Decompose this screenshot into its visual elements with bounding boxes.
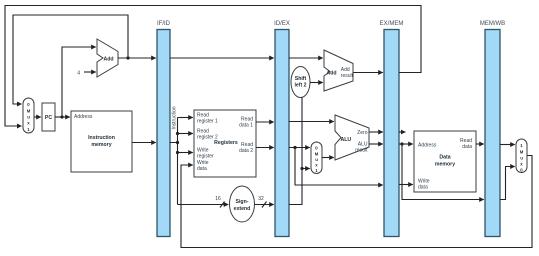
svg-text:data 1: data 1 [239, 123, 253, 129]
svg-text:Add: Add [104, 57, 114, 63]
junction PC output [60, 115, 63, 118]
wire: branch target loop EX/MEM to PC mux input 1 [5, 6, 421, 127]
svg-text:M: M [315, 152, 319, 157]
svg-text:result: result [355, 148, 368, 154]
wire: read data 2 ID/EX to mux M2 input 0 [289, 147, 310, 149]
svg-text:MEM/WB: MEM/WB [480, 21, 505, 27]
svg-text:register: register [197, 154, 214, 160]
svg-text:Registers: Registers [214, 140, 238, 146]
svg-text:IF/ID: IF/ID [157, 21, 171, 27]
svg-text:Shift: Shift [295, 76, 307, 82]
register PC [42, 103, 55, 131]
wire: instruction memory to IF/ID [132, 142, 156, 144]
wire: mux M2 to ALU [322, 157, 334, 159]
wire: instruction bus from IF/ID [170, 118, 178, 205]
junction instruction bus write register [176, 151, 179, 154]
mux M2 (ALU operand B) [311, 142, 322, 174]
svg-text:PC: PC [45, 115, 52, 121]
wire: PC to Add [62, 47, 96, 117]
wire: PC+4 loop to PC mux input 0 [13, 15, 128, 104]
svg-text:data: data [418, 185, 428, 191]
pipeline register EX/MEM [380, 21, 404, 237]
wire: read data 1 to ID/EX [256, 121, 274, 123]
pipeline register IF/ID [157, 21, 171, 237]
junction Add PC+4 output [126, 56, 129, 59]
wire: ALU result EX/MEM to data memory address [399, 143, 413, 145]
svg-text:16: 16 [215, 196, 221, 202]
svg-text:left 2: left 2 [294, 83, 306, 89]
shift left 2 unit [291, 67, 310, 98]
wire: branch adder result to EX/MEM [353, 72, 383, 74]
data memory [414, 131, 476, 192]
svg-text:32: 32 [258, 196, 264, 202]
mux M3 (write back) [516, 139, 527, 173]
svg-text:memory: memory [91, 142, 111, 148]
junction ALU result bypass [400, 142, 403, 145]
svg-text:Zero: Zero [357, 130, 368, 136]
wire: read data 1 ID/EX to ALU [289, 121, 334, 123]
junction read data 2 branch [293, 146, 296, 149]
svg-text:EX/MEM: EX/MEM [380, 21, 404, 27]
svg-text:Address: Address [74, 114, 93, 120]
wire: constant 4 to Add [84, 71, 96, 73]
svg-text:data 2: data 2 [239, 148, 253, 154]
wire: ALU result to EX/MEM [369, 143, 383, 145]
svg-text:M: M [520, 150, 524, 155]
junction instruction bus entry [176, 141, 179, 144]
svg-text:Address: Address [418, 143, 437, 149]
svg-text:Data: Data [439, 155, 450, 161]
wire: instruction to read register 1 [178, 117, 193, 119]
svg-text:4: 4 [77, 71, 80, 77]
svg-text:Sign-: Sign- [236, 199, 249, 205]
svg-text:u: u [27, 115, 30, 120]
svg-text:M: M [27, 109, 31, 114]
mux M1 (PC source) [23, 98, 34, 133]
svg-text:register 1: register 1 [197, 119, 218, 125]
svg-text:memory: memory [435, 162, 455, 168]
wire: PC+4 ID/EX to branch adder [289, 57, 323, 59]
wire: zero flag dangling arrow [399, 131, 405, 133]
pipeline register ID/EX [274, 21, 290, 237]
vertical Instruction bus label [172, 106, 178, 129]
svg-text:Instruction: Instruction [88, 135, 115, 141]
wire: sign extend to ID/EX [255, 204, 274, 206]
svg-text:ALU: ALU [341, 137, 352, 143]
wire: write data EX/MEM to data memory [399, 184, 413, 186]
wire: instruction to sign extend [178, 204, 229, 206]
wire: PC to instruction memory address [55, 116, 70, 118]
bus width 16 [215, 196, 224, 208]
wire: shift left 2 to branch adder [310, 82, 323, 84]
wire: read data MEM/WB to mux M3 input 1 [500, 144, 515, 146]
wire: ALU result MEM/WB to mux M3 input 0 [500, 167, 515, 200]
junction immediate to mux M2 [300, 167, 303, 170]
instruction memory [71, 111, 132, 172]
register file Registers [194, 110, 256, 177]
constant 4 [77, 71, 80, 77]
wire: write back to registers write data [181, 156, 532, 248]
svg-text:Add: Add [327, 71, 337, 77]
wire: ALU zero to EX/MEM [369, 131, 383, 133]
wire: read data 2 branch to EX/MEM write data [295, 148, 383, 186]
svg-text:u: u [315, 157, 318, 162]
wire: mux M1 to PC [34, 116, 41, 118]
svg-text:result: result [341, 73, 354, 79]
svg-text:data: data [197, 166, 207, 172]
bus width 32 [258, 196, 266, 208]
wire: instruction to read register 2 [178, 133, 193, 135]
junction instruction bus read register 2 [176, 132, 179, 135]
svg-text:Instruction: Instruction [172, 106, 178, 129]
ALU [335, 115, 369, 160]
wire: data memory read data to MEM/WB [476, 143, 484, 145]
adder Add (branch target) [324, 50, 354, 91]
wire: immediate to shift left 2 and mux M2 input 1 [289, 98, 310, 205]
sign extend unit [230, 186, 255, 222]
wire: PC+4 IF/ID to ID/EX [170, 57, 274, 59]
svg-text:extend: extend [234, 206, 251, 212]
adder Add (PC+4) [97, 39, 118, 77]
wire: ALU result bypass to MEM/WB [402, 144, 484, 200]
svg-text:data: data [462, 144, 472, 150]
wire: Add output to IF/ID [118, 57, 156, 59]
wire: read data 2 to ID/EX [256, 147, 274, 149]
pipeline register MEM/WB [480, 21, 505, 237]
svg-text:ID/EX: ID/EX [274, 21, 290, 27]
wire: instruction to write register [178, 152, 193, 154]
svg-text:u: u [520, 156, 523, 161]
